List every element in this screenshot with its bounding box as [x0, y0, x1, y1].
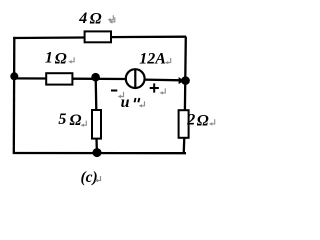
current source 12A: circle body — [126, 69, 145, 88]
paragraph mark after "2 Omega" — [209, 119, 215, 125]
wire: right side vertical, lower segment — [183, 137, 186, 153]
polarity minus sign (left of source) — [111, 90, 117, 92]
paragraph mark after minus — [118, 92, 124, 98]
svg-text:Ω: Ω — [197, 113, 209, 130]
svg-text:u: u — [121, 94, 130, 111]
resistor 2-ohm body — [179, 110, 189, 138]
svg-text:5: 5 — [58, 111, 66, 128]
node B (5-ohm top junction) — [91, 73, 100, 82]
wire: 5-ohm branch, upper segment — [95, 77, 98, 111]
svg-text:Ω: Ω — [55, 50, 67, 67]
paragraph mark after "1 Omega" — [68, 57, 74, 63]
resistor 4-ohm body — [85, 31, 111, 42]
paragraph mark after "5 Omega" — [81, 121, 87, 127]
svg-text:(c): (c) — [81, 169, 98, 186]
svg-text:Ω: Ω — [90, 10, 102, 27]
svg-text:12A: 12A — [139, 50, 166, 67]
paragraph mark after "12A" — [165, 58, 171, 64]
wire: bottom side — [13, 152, 186, 154]
paragraph mark after plus — [160, 88, 166, 94]
resistor 1-ohm body — [46, 73, 72, 84]
resistor 5-ohm body — [92, 110, 101, 139]
wire: top side, left segment — [13, 36, 85, 39]
wire: middle row, current source to node C — [145, 78, 182, 81]
wire: right side vertical, upper segment — [184, 37, 187, 111]
wire: middle row, node A to 1-ohm resistor — [14, 77, 47, 79]
node C (right junction) — [181, 76, 190, 85]
svg-text:2: 2 — [186, 111, 195, 128]
paragraph mark after "(c)" — [95, 176, 101, 182]
node D (bottom junction) — [93, 148, 102, 157]
paragraph mark after "4 Omega" (doubled) — [108, 15, 114, 21]
svg-text:4: 4 — [78, 10, 87, 27]
wire: middle row, 1-ohm resistor to current source (through node B) — [72, 78, 126, 81]
node A (left junction) — [10, 72, 18, 80]
svg-text:Ω: Ω — [70, 112, 82, 129]
current direction arrowhead into node C — [179, 77, 185, 84]
wire: top side, right segment — [111, 36, 186, 39]
wire: left side vertical — [13, 37, 16, 154]
svg-text:1: 1 — [45, 50, 53, 67]
paragraph mark after u'' — [139, 101, 145, 107]
polarity plus sign (right of source) — [150, 87, 159, 89]
double prime after u — [135, 98, 136, 102]
wire: 5-ohm branch, lower segment — [95, 138, 98, 153]
current source 12A: vertical bar — [134, 69, 136, 87]
